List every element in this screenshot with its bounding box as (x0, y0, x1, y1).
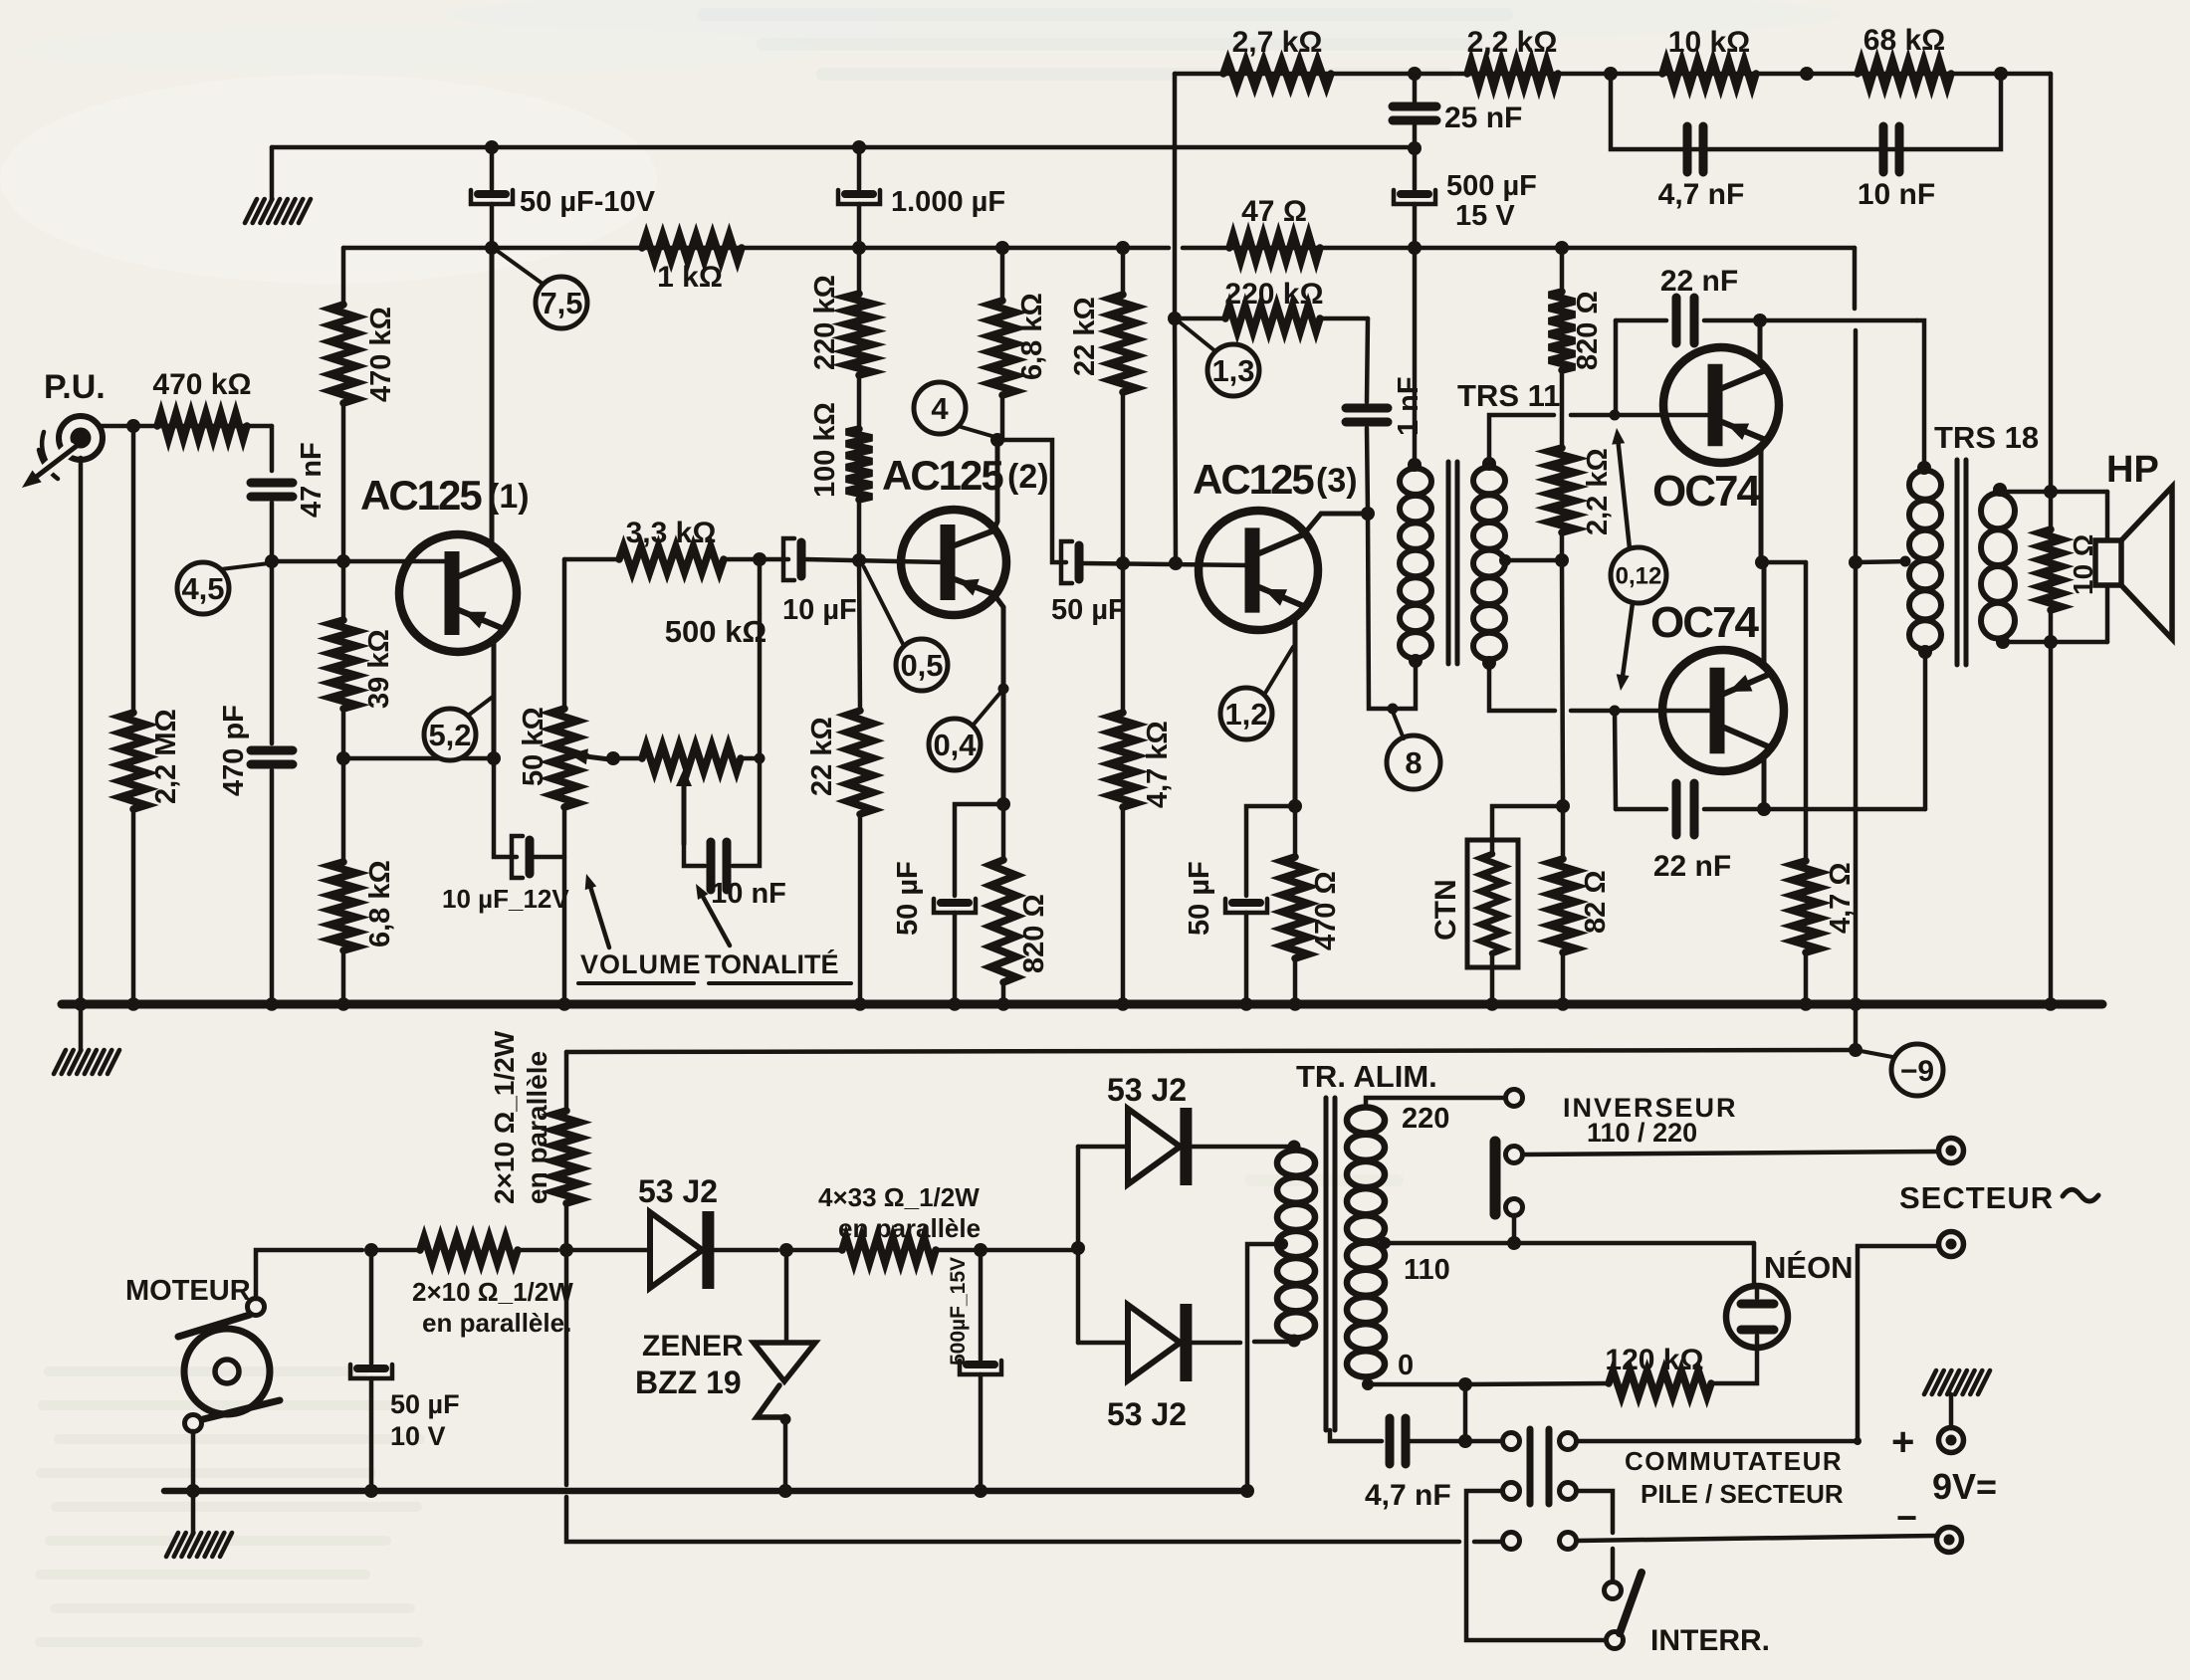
node bus x864 (853, 997, 867, 1011)
svg-text:COMMUTATEUR: COMMUTATEUR (1625, 1446, 1843, 1476)
node motor row / -9 leg (559, 1243, 573, 1257)
inductor TRS11 primary (1400, 469, 1431, 659)
resistor 10 Ω (2040, 492, 2098, 642)
node 0 / 4,7nF (1458, 1377, 1472, 1391)
wire emitter AC125-2 (993, 594, 1003, 804)
wire emitter OC74t (1761, 440, 1765, 562)
svg-text:BZZ 19: BZZ 19 (635, 1365, 742, 1400)
node TR sec center tap (1276, 1238, 1288, 1250)
wire diode to zener node (715, 1248, 777, 1253)
capacitor 25 nF (1393, 74, 1522, 134)
node collector2 (990, 433, 1004, 447)
node supply row / 1000µF (852, 241, 866, 255)
svg-text:22 nF: 22 nF (1653, 850, 1731, 883)
label VOLUME (578, 874, 702, 983)
node pointed base (269, 556, 279, 566)
svg-text:3,3 kΩ: 3,3 kΩ (626, 517, 717, 549)
svg-text:1,2: 1,2 (1224, 697, 1267, 732)
svg-text:0: 0 (1398, 1350, 1414, 1381)
svg-text:TR. ALIM.: TR. ALIM. (1296, 1059, 1437, 1094)
transistor AC125 (1) (360, 472, 530, 652)
node bus x1252 (1239, 997, 1253, 1011)
resistor 2,2 MΩ (120, 426, 182, 1002)
svg-text:50 µF-10V: 50 µF-10V (520, 186, 656, 218)
wire 110 row (1379, 1237, 1754, 1286)
node bus x273 (265, 997, 279, 1011)
svg-text:25 nF: 25 nF (1444, 102, 1522, 134)
wire 3,3k row corner (564, 557, 619, 562)
svg-text:500 kΩ: 500 kΩ (665, 614, 766, 649)
wire motor top riser (256, 1250, 362, 1299)
node supply row / TRS11 (1408, 241, 1422, 255)
svg-text:220 kΩ: 220 kΩ (809, 275, 841, 370)
svg-text:50 µF: 50 µF (1051, 594, 1126, 626)
pointer 4 (914, 382, 998, 438)
wire 47nF to base node (270, 503, 275, 561)
node base OC74t / 22nF (1610, 410, 1621, 421)
svg-text:10 nF: 10 nF (1858, 178, 1935, 211)
svg-text:P.U.: P.U. (44, 368, 106, 406)
wire collector AC125-1 (492, 248, 503, 558)
resistor 39 kΩ (330, 561, 395, 709)
svg-text:INTERR.: INTERR. (1650, 1624, 1770, 1657)
node TRS18 primary top (1917, 461, 1931, 475)
wire TRS11 center tap (1499, 554, 1562, 566)
wire 0 to 4,7nF row (1463, 1384, 1468, 1441)
core TRS11 (1448, 462, 1457, 664)
svg-text:22 kΩ: 22 kΩ (1069, 297, 1101, 376)
svg-text:470 kΩ: 470 kΩ (365, 307, 397, 402)
svg-text:220 kΩ: 220 kΩ (1224, 278, 1323, 311)
svg-text:−: − (1896, 1497, 1917, 1538)
wire 470k to base (341, 403, 346, 561)
node bus x1814 (1799, 997, 1813, 1011)
wire TRS11 primary top (1413, 248, 1418, 465)
wire base3 row (1083, 563, 1250, 565)
node ground rail / 1000µF (852, 140, 866, 154)
svg-text:4: 4 (931, 391, 949, 426)
capacitor 22 nF bottom (1653, 783, 1731, 883)
label P.U. (44, 368, 106, 406)
resistor 470 kΩ input (152, 368, 251, 439)
wire jack to bus (79, 458, 84, 1002)
svg-text:TONALITÉ: TONALITÉ (705, 948, 839, 979)
svg-text:en parallèle: en parallèle (838, 1213, 981, 1243)
label TR. ALIM. (1296, 1059, 1437, 1094)
wire tonalite right leg (733, 559, 760, 866)
pointer 8 (1387, 712, 1440, 789)
capacitor 22 nF top (1660, 265, 1738, 343)
switch COMMUTATEUR (1503, 1429, 1844, 1550)
wire 22nF top row (1616, 318, 1917, 323)
node bus2 50µF (364, 1484, 378, 1498)
pointer 1,2 (1220, 647, 1293, 739)
resistor 2,2 kΩ (1467, 26, 1558, 87)
svg-text:110 / 220: 110 / 220 (1587, 1118, 1697, 1148)
chain 220k 100k at x=863 (809, 204, 872, 560)
svg-text:NÉON: NÉON (1764, 1250, 1854, 1285)
wire emitter to 10µF-12V (494, 758, 517, 857)
terminal SECTEUR 1 (1939, 1139, 1964, 1163)
wire 0 row (1362, 1350, 1609, 1390)
resistor 6,8 kΩ divider (330, 758, 396, 1002)
resistor 47 Ω (1229, 195, 1320, 261)
svg-text:820 Ω: 820 Ω (1572, 291, 1604, 370)
bus rectifier output (164, 1488, 1247, 1495)
node TRS11 primary top (1408, 458, 1422, 472)
capacitor 10 µF-12V (442, 836, 569, 914)
wire 4,7nF-10nF row (1611, 74, 2001, 149)
node bus x134 (126, 997, 140, 1011)
speaker HP (2095, 487, 2172, 642)
wire -9 feed top rail (1175, 72, 2051, 77)
transistor AC125 (3) (1193, 456, 1358, 630)
diode 53J2 top (1078, 1072, 1187, 1185)
wire divider corner (341, 248, 346, 305)
capacitor 10 nF (1858, 126, 1935, 211)
wire commutateur row2 right (1577, 1491, 1613, 1581)
pointer 0,12 (1611, 428, 1666, 691)
node supply row / 820 (1555, 241, 1569, 255)
node emitter2 / 50µF (996, 797, 1010, 811)
node center tap / supply (1849, 555, 1862, 569)
resistor 2x10 Ω horizontal (371, 1237, 573, 1338)
svg-text:39 kΩ: 39 kΩ (363, 629, 395, 709)
thermistor CTN (1429, 840, 1518, 967)
svg-text:1,3: 1,3 (1211, 353, 1254, 388)
node 3,3k row / tonalite (753, 552, 766, 566)
diode 53J2 bottom (1078, 1304, 1187, 1432)
wire supply drop x1864 (1854, 330, 1859, 1002)
wire bias mid down (1562, 560, 1563, 806)
node base OC74b / 22nF (1610, 706, 1621, 717)
wire emitter corner to 4,7 (1804, 562, 1809, 861)
wire TRS11 sec bottom to base OC74b (1489, 663, 1715, 711)
svg-text:OC74: OC74 (1650, 598, 1759, 647)
node bus x1008 (996, 997, 1010, 1011)
wire P.U. to grid (102, 424, 272, 429)
svg-text:AC125: AC125 (1193, 456, 1314, 503)
wire collector row to TRS18 top (1917, 320, 1924, 466)
svg-text:AC125: AC125 (882, 452, 1003, 499)
node bias / 220k (1168, 312, 1182, 325)
node bus2 zener (778, 1484, 792, 1498)
capacitor 50 µF 10V motor (350, 1250, 460, 1491)
svg-text:9V=: 9V= (1932, 1466, 1997, 1507)
wire emitter AC125-1 (494, 628, 503, 758)
wire collector2 to 50µF (997, 440, 1066, 562)
transistor OC74 top (1652, 347, 1779, 516)
node bus x959 (948, 997, 962, 1011)
capacitor 500 µF-15V (947, 1250, 1001, 1491)
svg-text:2×10 Ω_1/2W: 2×10 Ω_1/2W (489, 1030, 520, 1204)
node top rail / 25nF (1408, 67, 1422, 81)
wire ground stem top-left (270, 147, 275, 200)
node collector3 / 1nF (1361, 507, 1375, 521)
node supply row / AC125-1 collector (485, 241, 499, 255)
svg-text:CTN: CTN (1429, 879, 1462, 941)
capacitor 470 pF (218, 561, 293, 796)
svg-text:−9: −9 (1900, 1055, 1934, 1088)
resistor 68 kΩ (1858, 24, 1951, 87)
wire inverseur 110 stub (1512, 1215, 1517, 1243)
svg-text:47 nF: 47 nF (296, 442, 328, 518)
wire emitter3 jog to 50µF (1246, 806, 1295, 896)
wire 1nF to collector3 (1367, 428, 1368, 514)
svg-text:2,7 kΩ: 2,7 kΩ (1232, 26, 1323, 59)
node top rail / 10nF branch (1800, 67, 1814, 81)
svg-text:47 Ω: 47 Ω (1241, 195, 1307, 228)
node bus2 motor gnd (186, 1484, 200, 1498)
wire collector OC74t (1760, 320, 1765, 370)
node base2 divider (852, 553, 866, 567)
node emitter3 (1288, 799, 1302, 813)
wire commutateur row1 right (1577, 1439, 1858, 1444)
capacitor 50 µF bypass-2 (892, 861, 976, 936)
node volume wiper / 500k (606, 751, 620, 765)
terminal battery + (1891, 1420, 1964, 1464)
node 4,7nF row (1458, 1434, 1472, 1448)
svg-text:10 V: 10 V (390, 1421, 446, 1451)
wire supply row corner stub (1853, 248, 1858, 309)
svg-text:PILE / SECTEUR: PILE / SECTEUR (1641, 1479, 1844, 1509)
wire CTN to bus (1490, 967, 1495, 1002)
node emitter / feedback (487, 751, 501, 765)
svg-text:5,2: 5,2 (428, 718, 471, 752)
wire bus to -9 link (1854, 1004, 1859, 1050)
svg-text:(3): (3) (1316, 462, 1358, 500)
wire 10µF-12V to volume (534, 855, 564, 860)
pointer 4,5 (177, 562, 269, 614)
node TR sec bottom (1288, 1335, 1301, 1348)
wire 22nF-b to base OC74b (1615, 711, 1616, 809)
svg-text:SECTEUR: SECTEUR (1899, 1180, 2054, 1215)
svg-text:10 µF: 10 µF (782, 594, 857, 626)
resistor 10 kΩ (1662, 26, 1756, 87)
resistor 3,3 kΩ (619, 517, 724, 572)
wire collector OC74b (1764, 747, 1769, 809)
node collector OC74t (1753, 314, 1767, 327)
node top rail / 4,7nF branch (1604, 67, 1618, 81)
node pointed 8 (1388, 704, 1399, 715)
svg-text:(2): (2) (1007, 458, 1049, 496)
inductor TRS11 secondary (1473, 468, 1505, 660)
node ground rail / 50µF (485, 140, 499, 154)
svg-text:MOTEUR: MOTEUR (125, 1275, 251, 1307)
svg-text:220: 220 (1402, 1103, 1449, 1135)
wire bus2 ground stem (191, 1491, 196, 1534)
wire battery minus row (566, 1250, 1502, 1542)
svg-text:6,8 kΩ: 6,8 kΩ (364, 860, 396, 947)
svg-text:1 nF: 1 nF (1393, 376, 1424, 436)
wire 4,7nF to commutateur (1406, 1439, 1502, 1444)
ground top-left (245, 199, 311, 223)
node 4x33 / 500µF (974, 1243, 987, 1257)
svg-text:+: + (1891, 1420, 1914, 1464)
svg-text:50 kΩ: 50 kΩ (518, 707, 549, 786)
resistor 120 kΩ (1605, 1344, 1711, 1396)
capacitor 47 nF (251, 442, 328, 518)
node base3 / 4,7k (1116, 556, 1130, 570)
node tonalite right (755, 753, 766, 764)
node bias divider mid (1555, 553, 1569, 567)
contact inverseur 220 (1506, 1090, 1523, 1107)
core TR.ALIM (1326, 1098, 1335, 1430)
node TRS11 secondary bottom (1482, 656, 1496, 670)
capacitor 10 nF tone (711, 842, 786, 910)
wire speaker bottom to bus (2049, 642, 2054, 1002)
svg-text:OC74: OC74 (1652, 467, 1761, 516)
node divider / feedback (336, 751, 350, 765)
svg-text:HP: HP (2106, 449, 2159, 491)
wire row3 to minus terminal (1577, 1536, 1936, 1541)
svg-text:0,5: 0,5 (900, 648, 943, 683)
wire emitter row (1762, 560, 1806, 565)
wire rectifier input vertical (1076, 1147, 1081, 1343)
svg-text:10 µF_12V: 10 µF_12V (442, 884, 569, 914)
diode 53J2 series (638, 1173, 718, 1289)
resistor 2,2 kΩ bias (1549, 370, 1614, 560)
svg-text:500µF_15V: 500µF_15V (947, 1257, 970, 1365)
resistor 4,7 Ω (1793, 861, 1857, 1002)
svg-text:7,5: 7,5 (540, 286, 582, 320)
svg-text:0,12: 0,12 (1616, 563, 1662, 590)
svg-text:470 kΩ: 470 kΩ (152, 368, 251, 401)
lamp NEON (1726, 1250, 1854, 1348)
capacitor 1.000 µF (838, 147, 1005, 218)
node supply row / 22k (1116, 241, 1130, 255)
capacitor 500 µF 15V (1394, 148, 1537, 232)
inductor TR.ALIM secondary (1277, 1151, 1315, 1339)
capacitor 50 µF-10V (471, 147, 656, 248)
node supply row / 6,8k (995, 241, 1009, 255)
node TRS18 secondary top (1993, 483, 2007, 497)
svg-text:2,2 kΩ: 2,2 kΩ (1582, 448, 1614, 535)
svg-text:470 Ω: 470 Ω (1310, 871, 1342, 950)
resistor 22 kΩ lower (806, 560, 873, 1002)
switch INVERSEUR (1495, 1093, 1738, 1216)
svg-text:TRS 11: TRS 11 (1457, 378, 1560, 413)
wire base AC125-1 (272, 559, 450, 564)
node top rail right (1994, 67, 2008, 81)
svg-text:1.000 µF: 1.000 µF (891, 186, 1005, 218)
node row3 / interr (0, 0, 1, 1)
svg-text:22 nF: 22 nF (1660, 265, 1738, 298)
node collector OC74b (1757, 802, 1771, 816)
svg-text:6,8 kΩ: 6,8 kΩ (1016, 293, 1048, 380)
node -9 (1849, 1043, 1862, 1057)
wire tonalite wiper to 10nF (684, 842, 705, 866)
capacitor 50 µF coupling (1051, 541, 1126, 626)
svg-text:AC125: AC125 (360, 472, 482, 519)
wire CTN branch (1492, 806, 1563, 842)
label tap 220 (1402, 1103, 1449, 1135)
wire center tap (1856, 556, 1911, 567)
svg-text:50 µF: 50 µF (892, 861, 924, 936)
inductor TRS18 secondary (1981, 494, 2015, 639)
node TRS18 secondary bottom (1996, 635, 2010, 649)
wire bus ground stem (79, 1004, 84, 1051)
wire TR primary top (1366, 1098, 1506, 1107)
resistor 22 kΩ top (1069, 248, 1136, 563)
svg-text:53 J2: 53 J2 (1107, 1396, 1187, 1432)
node bus x345 (336, 997, 350, 1011)
node ground rail / 25nF (1408, 141, 1422, 155)
wire 50µF-3 to bus (1244, 913, 1249, 1002)
bus -9V (62, 1000, 2102, 1009)
wire emitter AC125-3 (1295, 606, 1304, 806)
node CTN / 82 top (1556, 799, 1570, 813)
svg-text:1 kΩ: 1 kΩ (657, 261, 723, 294)
wire speaker bottom (2003, 640, 2107, 645)
pointer 7,5 (496, 250, 587, 328)
transistor AC125 (2) (882, 452, 1049, 615)
wire inverseur to secteur1 (1523, 1152, 1938, 1155)
svg-text:4,5: 4,5 (181, 571, 224, 606)
wire TRS18 primary bottom (1923, 654, 1928, 809)
wire 39k to feedback node (341, 709, 346, 758)
node P.U. branch (126, 419, 140, 433)
node bus x1570 (1556, 997, 1570, 1011)
core TRS18 (1957, 460, 1966, 665)
node TRS18 primary bottom (1918, 645, 1932, 659)
svg-text:500 µF: 500 µF (1446, 170, 1537, 202)
node TRS11 secondary top (1482, 457, 1496, 471)
svg-text:82 Ω: 82 Ω (1580, 870, 1612, 934)
node zener top (779, 1243, 793, 1257)
node motor row / 50µF (364, 1243, 378, 1257)
svg-text:TRS 18: TRS 18 (1934, 420, 2039, 455)
svg-text:en parallèle.: en parallèle. (422, 1308, 571, 1338)
wire collector AC125-2 (993, 440, 997, 530)
svg-text:4,7 kΩ: 4,7 kΩ (1142, 721, 1174, 808)
transistor OC74 bottom (1650, 598, 1784, 771)
wiper volume (569, 748, 617, 764)
node bus x81 (74, 997, 88, 1011)
zener ZENER BZZ19 (635, 1250, 815, 1491)
svg-text:2×10 Ω_1/2W: 2×10 Ω_1/2W (412, 1277, 573, 1307)
svg-text:820 Ω: 820 Ω (1018, 894, 1050, 973)
inductor TRS18 primary (1909, 471, 1941, 650)
capacitor 1 nF (1346, 318, 1424, 436)
node rectifier input (1071, 1241, 1085, 1255)
terminal SECTEUR 2 (1939, 1232, 1964, 1257)
capacitor 4,7 nF (1658, 126, 1745, 211)
svg-text:50 µF: 50 µF (390, 1389, 460, 1419)
resistor 1 kΩ (642, 235, 742, 294)
label MOTEUR (125, 1275, 251, 1307)
resistor 470 kΩ divider (330, 305, 397, 403)
svg-text:110: 110 (1404, 1254, 1450, 1286)
svg-text:en parallèle: en parallèle (522, 1051, 552, 1204)
switch INTERR (1605, 1573, 1771, 1657)
wire core to 4,7nF (1330, 1430, 1382, 1441)
node emitters (1755, 555, 1769, 569)
wire supply row (343, 246, 1855, 251)
node base3 / bias (1169, 556, 1183, 570)
node bus x1499 (1485, 997, 1499, 1011)
resistor 4,7 kΩ (1110, 563, 1174, 1002)
wiper tonalite (676, 768, 692, 844)
wire TRS11 sec top to base OC74t (1489, 415, 1713, 464)
resistor 820 Ω emitter (990, 804, 1050, 1002)
node bus x1128 (1116, 997, 1130, 1011)
label TRS 18 (1934, 420, 2039, 455)
pointer dot emitter2 (998, 684, 1009, 695)
resistor 2,7 kΩ (1223, 26, 1331, 87)
wire 470pF to bus (270, 770, 275, 1002)
node speaker top / feedback (2044, 485, 2058, 499)
